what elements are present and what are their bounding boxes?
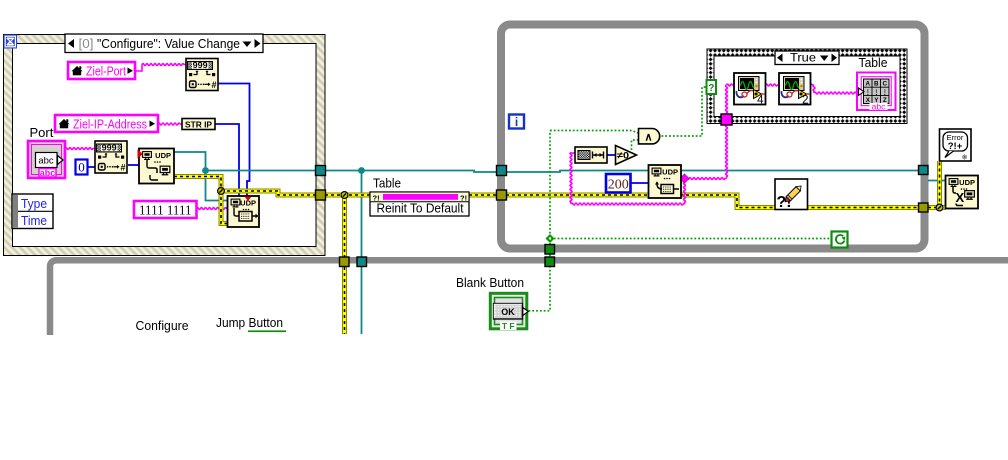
wire: Ziel-IP-Address to STR IP (magenta)	[158, 123, 182, 125]
label: Table (invoke node)	[373, 176, 401, 191]
node: invoke node Reinit To Default	[370, 192, 469, 216]
control: Type/Time listbox	[12, 194, 53, 229]
node: Decimal String To Number 999 #1	[186, 59, 218, 91]
svg-text:999: 999	[193, 60, 208, 70]
node: chart convert icon 4	[734, 73, 766, 107]
label: Blank Button	[456, 275, 524, 290]
wire: magenta feedback down/left to String Length	[570, 153, 686, 206]
svg-text:abc: abc	[38, 156, 54, 167]
svg-text:Table: Table	[373, 176, 401, 191]
wire: boolean to AND gate top input	[550, 131, 638, 134]
indicator: Table	[857, 73, 896, 112]
svg-text:True: True	[790, 51, 816, 65]
tunnel: teal on lower loop border	[357, 257, 367, 267]
tunnel: magenta on case structure bottom border	[721, 114, 732, 125]
svg-text:⋮: ⋮	[873, 89, 879, 96]
wire: error out of loop to UDP Close and error handler	[928, 161, 946, 208]
tunnel: teal on while loop right border	[919, 166, 929, 175]
svg-text:Table: Table	[859, 55, 888, 70]
event structure frame	[4, 35, 326, 256]
case structure frame	[707, 49, 907, 124]
wire: String Length to not-equal-0 (blue)	[607, 154, 616, 156]
svg-text:※: ※	[962, 155, 968, 162]
svg-text:STR IP: STR IP	[185, 119, 212, 129]
wire: 200 constant to UDP Read (blue)	[631, 182, 649, 184]
tunnel: teal on while loop left border	[497, 166, 507, 176]
selector: event structure header	[65, 34, 263, 53]
wire: teal to UDP Close (right)	[928, 180, 946, 182]
junction: error wire circle left	[218, 188, 225, 195]
wire: error main run to while loop (yellow/black)	[221, 191, 506, 195]
node: And gate	[639, 129, 660, 144]
svg-text:[0]: [0]	[79, 36, 94, 51]
terminal: loop condition (continue if true)	[832, 232, 848, 248]
svg-text:⋮: ⋮	[865, 89, 871, 96]
node: Clear Errors VI	[775, 179, 808, 211]
wire: teal conn across diagram into while loop	[206, 171, 929, 173]
tunnel: error on while loop right border	[919, 203, 929, 212]
lower while loop frame	[50, 260, 1008, 335]
constant: 0	[76, 160, 88, 175]
wire: UDP Open conn out down to UDP Write (teal)	[174, 152, 228, 201]
svg-text:Type: Type	[21, 196, 47, 211]
svg-text:4: 4	[757, 95, 764, 107]
control: Port string terminal	[28, 141, 65, 178]
svg-text:?!+: ?!+	[948, 141, 963, 152]
wire: error branch down to lower loop	[342, 195, 347, 334]
constant: 200	[606, 174, 631, 193]
node: UDP Read	[649, 165, 682, 198]
control: Ziel-IP-Address reference	[55, 115, 158, 132]
tunnel: error on event structure right border	[316, 190, 326, 200]
svg-text:Port: Port	[30, 125, 54, 140]
svg-text:abc: abc	[872, 101, 886, 111]
tunnel: case selector ?	[707, 80, 717, 94]
svg-text:OK: OK	[501, 307, 515, 317]
constant: 1111 1111 string	[134, 201, 197, 219]
svg-text:⋮: ⋮	[882, 89, 888, 96]
tunnel: error on while loop left border	[497, 190, 507, 200]
wire: magenta up into case tunnel	[726, 125, 728, 179]
tunnel: error on lower loop border	[340, 257, 350, 267]
svg-text:#: #	[120, 162, 125, 172]
wire: magenta inside case to chart icon 1	[726, 84, 735, 114]
svg-text:1111 1111: 1111 1111	[139, 204, 192, 219]
wire: teal branch down to lower loop	[361, 171, 363, 335]
tunnel: green on lower loop border	[545, 257, 555, 267]
node: String To IP	[182, 119, 215, 130]
svg-text:999: 999	[102, 143, 117, 153]
wire: conversion 999 #1 to UDP Write port input (blue)	[218, 84, 250, 197]
svg-text:0: 0	[78, 160, 85, 175]
label: Jump Button	[216, 315, 283, 330]
svg-text:Reinit To Default: Reinit To Default	[377, 201, 464, 216]
svg-text:T F: T F	[502, 321, 515, 331]
wire: Ziel-Port to conversion node (magenta)	[135, 64, 186, 72]
svg-text:UDP: UDP	[155, 151, 171, 160]
svg-text:X: X	[956, 190, 965, 205]
label: Table (case indicator)	[859, 55, 888, 70]
tunnel: teal on event structure right border	[316, 166, 326, 176]
junction: error wire circle mid	[341, 192, 348, 199]
node: chart convert icon 2	[779, 73, 811, 107]
label: Port	[30, 125, 54, 140]
control: Blank Button OK terminal	[490, 293, 528, 331]
label: Configure	[136, 318, 189, 333]
junction: green diamond	[546, 234, 555, 243]
node: Not Equal To 0?	[616, 146, 637, 165]
selector: case structure True header	[775, 51, 839, 65]
wire: boolean to loop condition terminal	[550, 238, 832, 240]
svg-text:UDP: UDP	[662, 167, 678, 176]
while loop frame	[501, 25, 925, 249]
wire: Port control to conversion node (magenta)	[65, 148, 95, 150]
svg-text:i: i	[515, 115, 518, 129]
node: Decimal String To Number 999 #2	[95, 141, 127, 173]
svg-text:Blank Button: Blank Button	[456, 275, 524, 290]
wire: conversion 999 #2 to UDP Open (blue)	[128, 164, 139, 166]
wire: 0 constant to conversion 999 #2 (blue)	[88, 166, 96, 168]
wire: magenta between chart icons	[766, 84, 780, 86]
wire: error UDP Open to junction and UDP Write error-in	[174, 177, 228, 224]
wire: boolean OK button up through tunnels (green dotted)	[529, 131, 551, 311]
svg-text:Configure: Configure	[136, 318, 189, 333]
wire: magenta chart icon 2 to Table indicator	[811, 84, 858, 94]
control: Ziel-Port reference	[68, 62, 135, 79]
svg-text:∧: ∧	[644, 132, 652, 144]
svg-text:Time: Time	[21, 213, 47, 228]
wire: STR IP to UDP Write address input (blue)	[215, 124, 239, 196]
svg-text:Ziel-Port: Ziel-Port	[86, 64, 126, 79]
terminal: while loop iteration i	[509, 115, 524, 130]
free label underline (green)	[248, 330, 286, 332]
wire: 1111 constant to UDP Write (magenta)	[197, 208, 228, 210]
svg-text:C: C	[883, 80, 888, 87]
junction: error wire circle right	[936, 204, 943, 211]
svg-text:B: B	[874, 80, 879, 87]
node: UDP Close	[946, 176, 979, 209]
svg-text:≠0: ≠0	[617, 151, 629, 162]
junction: magenta diamond	[680, 174, 689, 183]
wire: AND gate out to case selector	[662, 87, 708, 136]
svg-text:200: 200	[608, 178, 629, 193]
svg-text:Jump Button: Jump Button	[216, 315, 283, 330]
svg-text:abc: abc	[40, 168, 56, 178]
svg-text:UDP: UDP	[959, 178, 975, 187]
node: Simple Error Handler	[940, 129, 972, 162]
wire: not-equal-0 to AND gate bottom input	[632, 140, 639, 150]
node: UDP Open	[138, 149, 175, 184]
tunnel: green on while loop bottom border	[545, 245, 555, 255]
svg-text:Ziel-IP-Address: Ziel-IP-Address	[73, 117, 147, 132]
terminal: event structure timeout	[4, 35, 18, 49]
wire: error inside while loop to right tunnel	[506, 195, 919, 208]
svg-text:?: ?	[708, 83, 714, 94]
junction: teal dot	[202, 167, 209, 174]
svg-text:#: #	[211, 80, 216, 90]
svg-text:"Configure": Value Change: "Configure": Value Change	[97, 36, 240, 51]
node: String Length	[575, 147, 607, 163]
svg-text:A: A	[866, 80, 871, 87]
node: UDP Write	[228, 196, 260, 227]
wire: UDP Read data out (magenta wavy)	[681, 178, 727, 180]
junction: teal dot mid	[358, 167, 365, 174]
svg-text:2: 2	[802, 95, 808, 107]
